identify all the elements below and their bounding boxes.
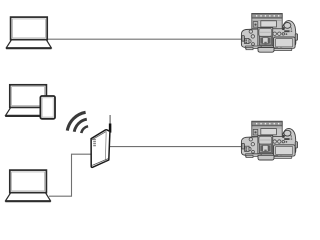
laptop 2 (middle left, with tablet) (5, 85, 51, 117)
router LEDs (93, 139, 96, 146)
laptop 1 (top left) (6, 17, 52, 49)
router antenna (thin tip) (109, 115, 111, 125)
wire from router to camera 2 (108, 146, 245, 148)
camera 1 (top right) (241, 14, 297, 53)
wifi waves (67, 112, 88, 133)
camera 2 (bottom right) (241, 121, 297, 160)
wire from laptop 3 to router (49, 154, 91, 196)
router antenna (thick base) (109, 124, 112, 133)
laptop 3 (bottom left) (5, 170, 51, 202)
router body (91, 130, 110, 168)
wire from laptop 1 to camera 1 (48, 38, 246, 40)
tablet overlapping laptop 2 (40, 96, 55, 119)
